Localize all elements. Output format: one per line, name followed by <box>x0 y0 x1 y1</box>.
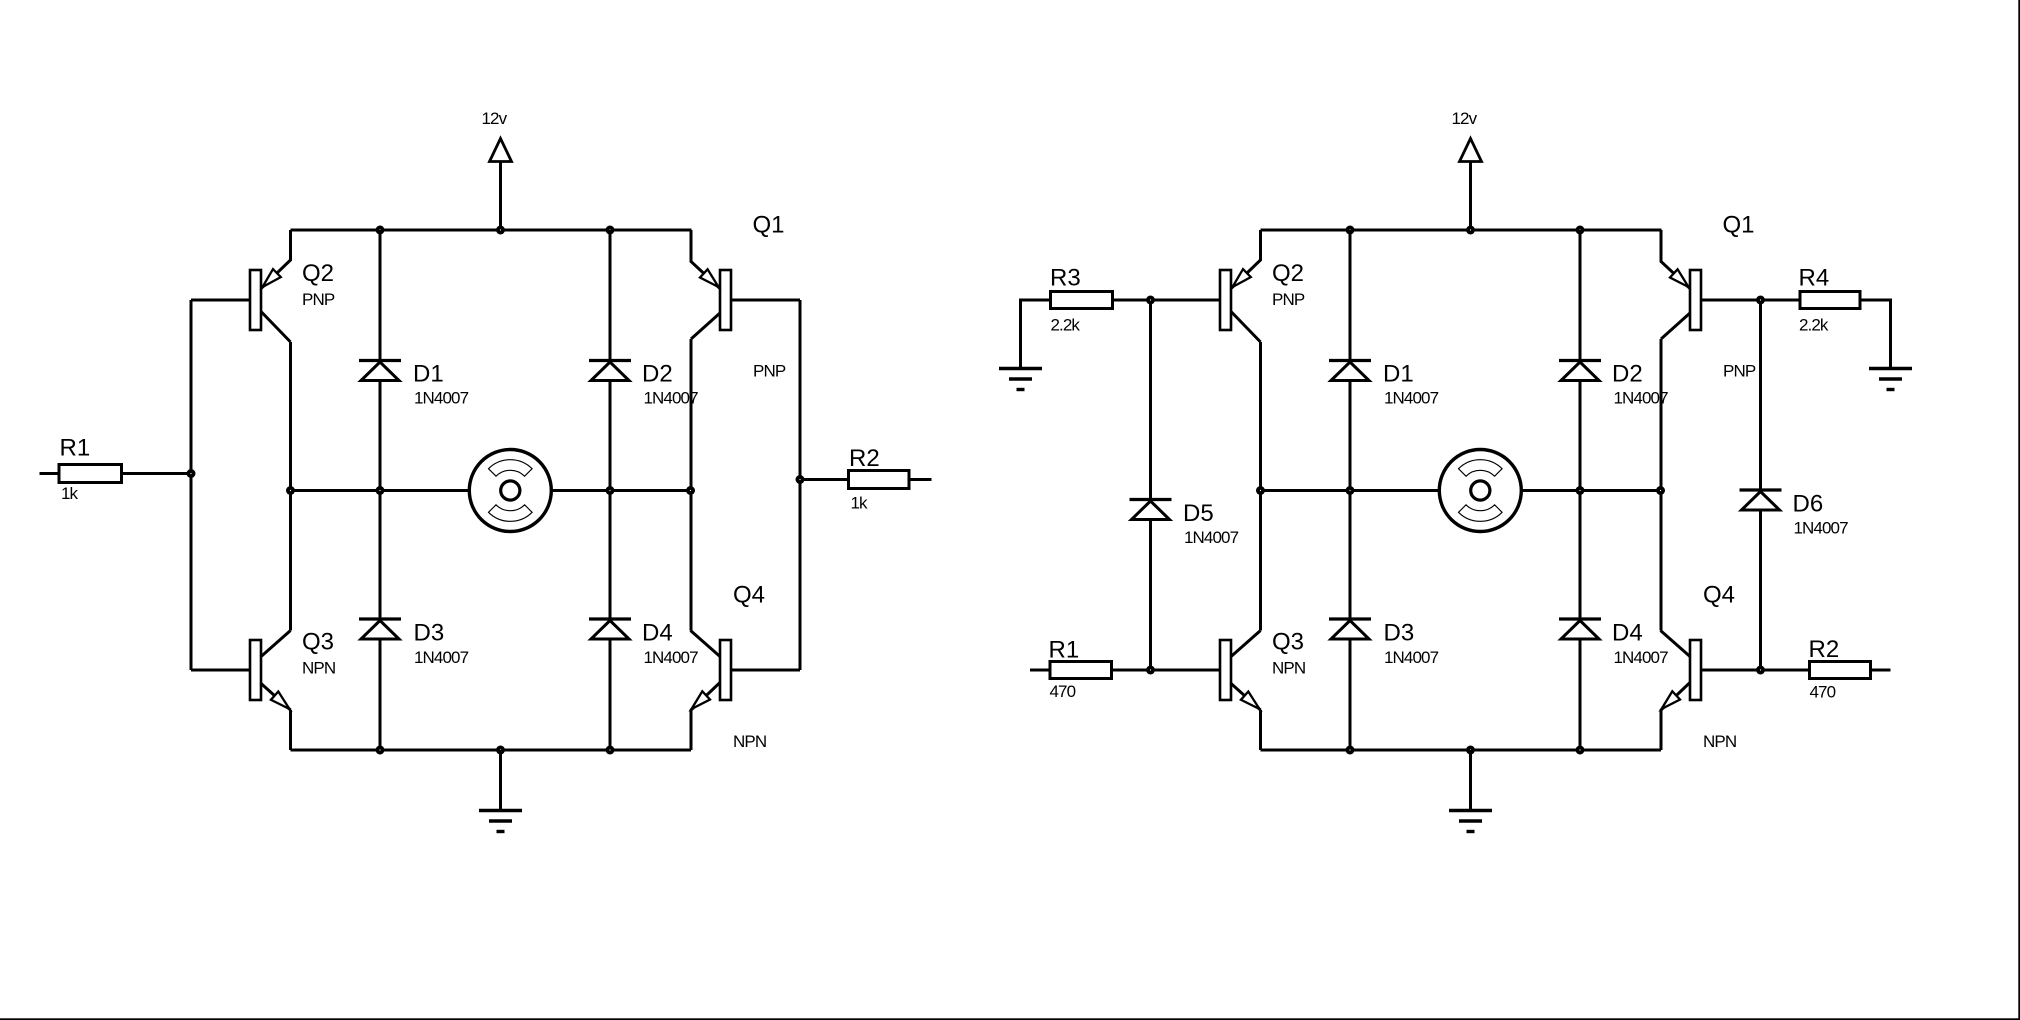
wire Q1 collector to mid rail (right ckt) <box>1660 339 1663 631</box>
svg-text:1N4007: 1N4007 <box>1614 648 1669 667</box>
node mid-rail/D2D4 junction (right ckt) <box>1576 486 1585 495</box>
wire Q4 base (left ckt) <box>731 669 800 672</box>
svg-text:R3: R3 <box>1050 265 1081 292</box>
svg-text:Q1: Q1 <box>753 212 785 239</box>
motor M (left ckt) <box>469 450 551 532</box>
node mid-rail/D1D3 junction (right ckt) <box>1346 486 1355 495</box>
wire Q2 collector to mid rail (right ckt) <box>1259 342 1262 631</box>
svg-text:470: 470 <box>1050 682 1076 701</box>
svg-text:1N4007: 1N4007 <box>644 389 699 408</box>
svg-text:R2: R2 <box>849 445 880 472</box>
svg-text:1N4007: 1N4007 <box>1614 389 1669 408</box>
ground for R4 (right ckt) <box>1869 369 1912 390</box>
transistor Q3 NPN (right ckt) <box>1220 629 1305 711</box>
svg-text:Q2: Q2 <box>302 260 334 287</box>
wire base rail Q1-Q4 (right ckt) <box>1759 300 1762 670</box>
wire Q1 collector to mid rail (left ckt) <box>690 339 693 631</box>
node bottom-rail/D4 junction (left ckt) <box>606 746 615 755</box>
wire mid rail left segment (right ckt) <box>1261 489 1440 492</box>
svg-text:R4: R4 <box>1799 265 1830 292</box>
node bottom-rail/D4 junction (right ckt) <box>1576 746 1585 755</box>
node top-rail/D1 junction (right ckt) <box>1346 226 1355 235</box>
diode D4 1N4007 (right ckt) <box>1559 619 1668 667</box>
node base-rail/R1 junction (left ckt) <box>187 469 196 478</box>
node R4/base-rail junction (right ckt) <box>1756 296 1765 305</box>
svg-text:1N4007: 1N4007 <box>414 648 469 667</box>
svg-text:2.2k: 2.2k <box>1799 316 1829 335</box>
power symbol 12v (right ckt) <box>1452 109 1482 230</box>
wire Q2 base (right ckt) <box>1151 299 1221 302</box>
svg-text:Q3: Q3 <box>1272 629 1304 656</box>
wire mid rail right segment (left ckt) <box>551 489 691 492</box>
wire bottom rail (right ckt) <box>1261 749 1662 752</box>
svg-text:NPN: NPN <box>302 659 335 678</box>
wire top rail (left ckt) <box>291 229 692 232</box>
node mid-rail/Q2Q3 junction (left ckt) <box>286 486 295 495</box>
wire base rail Q2-Q3 (left ckt) <box>190 300 193 670</box>
ground (left ckt) <box>479 750 522 832</box>
node mid-rail/Q1Q4 junction (right ckt) <box>1656 486 1665 495</box>
wire D2-D4 vertical (right ckt) <box>1579 230 1582 750</box>
wire base rail Q1-Q4 (left ckt) <box>799 300 802 670</box>
transistor Q2 PNP (right ckt) <box>1220 230 1305 342</box>
svg-text:Q4: Q4 <box>733 582 765 609</box>
wire Q2 collector to mid rail (left ckt) <box>289 342 292 631</box>
transistor Q3 NPN (left ckt) <box>250 629 335 711</box>
svg-text:D2: D2 <box>642 361 673 388</box>
svg-text:D3: D3 <box>414 620 445 647</box>
wire bottom rail (left ckt) <box>291 749 692 752</box>
svg-text:D6: D6 <box>1793 491 1824 518</box>
transistor Q2 PNP (left ckt) <box>250 230 335 342</box>
transistor Q4 NPN (left ckt) <box>691 582 767 752</box>
diode D5 1N4007 (right ckt) <box>1130 500 1239 548</box>
node R1/base-rail junction (right ckt) <box>1146 666 1155 675</box>
diode D1 1N4007 (right ckt) <box>1329 361 1439 408</box>
wire D2-D4 vertical (left ckt) <box>609 230 612 750</box>
svg-text:D1: D1 <box>413 361 444 388</box>
svg-text:D2: D2 <box>1612 361 1643 388</box>
svg-text:NPN: NPN <box>1703 732 1736 751</box>
node top-rail/D2 junction (right ckt) <box>1576 226 1585 235</box>
node R3/base-rail junction (right ckt) <box>1146 296 1155 305</box>
svg-text:D3: D3 <box>1384 620 1415 647</box>
transistor Q1 PNP (left ckt) <box>691 212 786 381</box>
node bottom-rail/D3 junction (right ckt) <box>1346 746 1355 755</box>
svg-text:Q3: Q3 <box>302 629 334 656</box>
resistor R2 1k (left ckt) <box>800 445 932 513</box>
svg-text:1N4007: 1N4007 <box>414 389 469 408</box>
node mid-rail/Q2Q3 junction (right ckt) <box>1256 486 1265 495</box>
resistor R1 1k (left ckt) <box>40 435 192 504</box>
svg-text:PNP: PNP <box>1272 290 1305 309</box>
wire Q1 base (right ckt) <box>1701 299 1761 302</box>
node base-rail/R2 junction (left ckt) <box>796 475 805 484</box>
wire mid rail right segment (right ckt) <box>1521 489 1661 492</box>
node top-rail/D1 junction (left ckt) <box>376 226 385 235</box>
svg-text:PNP: PNP <box>753 362 786 381</box>
resistor R1 470 (right ckt) <box>1030 637 1151 702</box>
svg-text:D4: D4 <box>1612 620 1643 647</box>
transistor Q4 NPN (right ckt) <box>1661 582 1737 752</box>
wire Q3 emitter to bottom rail (right ckt) <box>1259 710 1262 750</box>
wire Q3 base (right ckt) <box>1151 669 1221 672</box>
svg-text:1k: 1k <box>851 494 869 513</box>
diode D2 1N4007 (left ckt) <box>589 361 698 408</box>
resistor R4 2.2k (right ckt) <box>1761 265 1891 369</box>
svg-text:2.2k: 2.2k <box>1051 316 1081 335</box>
svg-text:1N4007: 1N4007 <box>1794 519 1849 538</box>
transistor Q1 PNP (right ckt) <box>1661 212 1756 381</box>
wire Q4 emitter to bottom rail (left ckt) <box>690 711 693 751</box>
svg-text:NPN: NPN <box>733 732 766 751</box>
svg-text:D4: D4 <box>642 620 673 647</box>
ground for R3 (right ckt) <box>999 369 1042 390</box>
svg-text:1k: 1k <box>61 484 79 503</box>
svg-text:1N4007: 1N4007 <box>1184 528 1239 547</box>
node top-rail/D2 junction (left ckt) <box>606 226 615 235</box>
svg-text:12v: 12v <box>1452 109 1478 128</box>
svg-text:NPN: NPN <box>1272 659 1305 678</box>
svg-text:Q4: Q4 <box>1703 582 1735 609</box>
node bottom-rail/ground junction (right ckt) <box>1466 746 1475 755</box>
svg-text:Q2: Q2 <box>1272 260 1304 287</box>
wire Q2 base (left ckt) <box>191 299 250 302</box>
svg-text:12v: 12v <box>482 109 508 128</box>
diode D3 1N4007 (left ckt) <box>359 619 469 667</box>
svg-text:R1: R1 <box>1049 637 1080 664</box>
diode D1 1N4007 (left ckt) <box>359 361 469 408</box>
diode D6 1N4007 (right ckt) <box>1740 490 1849 538</box>
wire base rail Q2-Q3 (right ckt) <box>1149 300 1152 670</box>
svg-text:1N4007: 1N4007 <box>1384 648 1439 667</box>
node bottom-rail/D3 junction (left ckt) <box>376 746 385 755</box>
node top-rail/12v junction (left ckt) <box>496 226 505 235</box>
svg-text:PNP: PNP <box>1723 362 1756 381</box>
svg-text:1N4007: 1N4007 <box>1384 389 1439 408</box>
resistor R2 470 (right ckt) <box>1761 636 1891 702</box>
power symbol 12v (left ckt) <box>482 109 512 230</box>
wire Q1 base (left ckt) <box>731 299 800 302</box>
svg-text:1N4007: 1N4007 <box>644 648 699 667</box>
node mid-rail/Q1Q4 junction (left ckt) <box>686 486 695 495</box>
wire D1-D3 vertical (left ckt) <box>379 230 382 750</box>
diode D3 1N4007 (right ckt) <box>1329 619 1439 667</box>
wire Q4 emitter to bottom rail (right ckt) <box>1660 711 1663 751</box>
svg-text:PNP: PNP <box>302 290 335 309</box>
svg-text:R2: R2 <box>1809 636 1840 663</box>
wire Q4 base (right ckt) <box>1701 669 1761 672</box>
svg-text:Q1: Q1 <box>1723 212 1755 239</box>
node top-rail/12v junction (right ckt) <box>1466 226 1475 235</box>
svg-text:470: 470 <box>1810 683 1836 702</box>
diode D4 1N4007 (left ckt) <box>589 619 698 667</box>
wire Q3 emitter to bottom rail (left ckt) <box>289 710 292 750</box>
wire top rail (right ckt) <box>1261 229 1662 232</box>
svg-text:D5: D5 <box>1183 500 1214 527</box>
node mid-rail/D2D4 junction (left ckt) <box>606 486 615 495</box>
node mid-rail/D1D3 junction (left ckt) <box>376 486 385 495</box>
wire Q3 base (left ckt) <box>191 669 250 672</box>
svg-text:R1: R1 <box>60 435 91 462</box>
node R2/base-rail junction (right ckt) <box>1756 666 1765 675</box>
svg-text:D1: D1 <box>1383 361 1414 388</box>
motor M (right ckt) <box>1439 450 1521 532</box>
wire mid rail left segment (left ckt) <box>291 489 470 492</box>
wire D1-D3 vertical (right ckt) <box>1349 230 1352 750</box>
node bottom-rail/ground junction (left ckt) <box>496 746 505 755</box>
resistor R3 2.2k (right ckt) <box>1021 265 1151 369</box>
diode D2 1N4007 (right ckt) <box>1559 361 1668 408</box>
ground (right ckt) <box>1449 750 1492 832</box>
